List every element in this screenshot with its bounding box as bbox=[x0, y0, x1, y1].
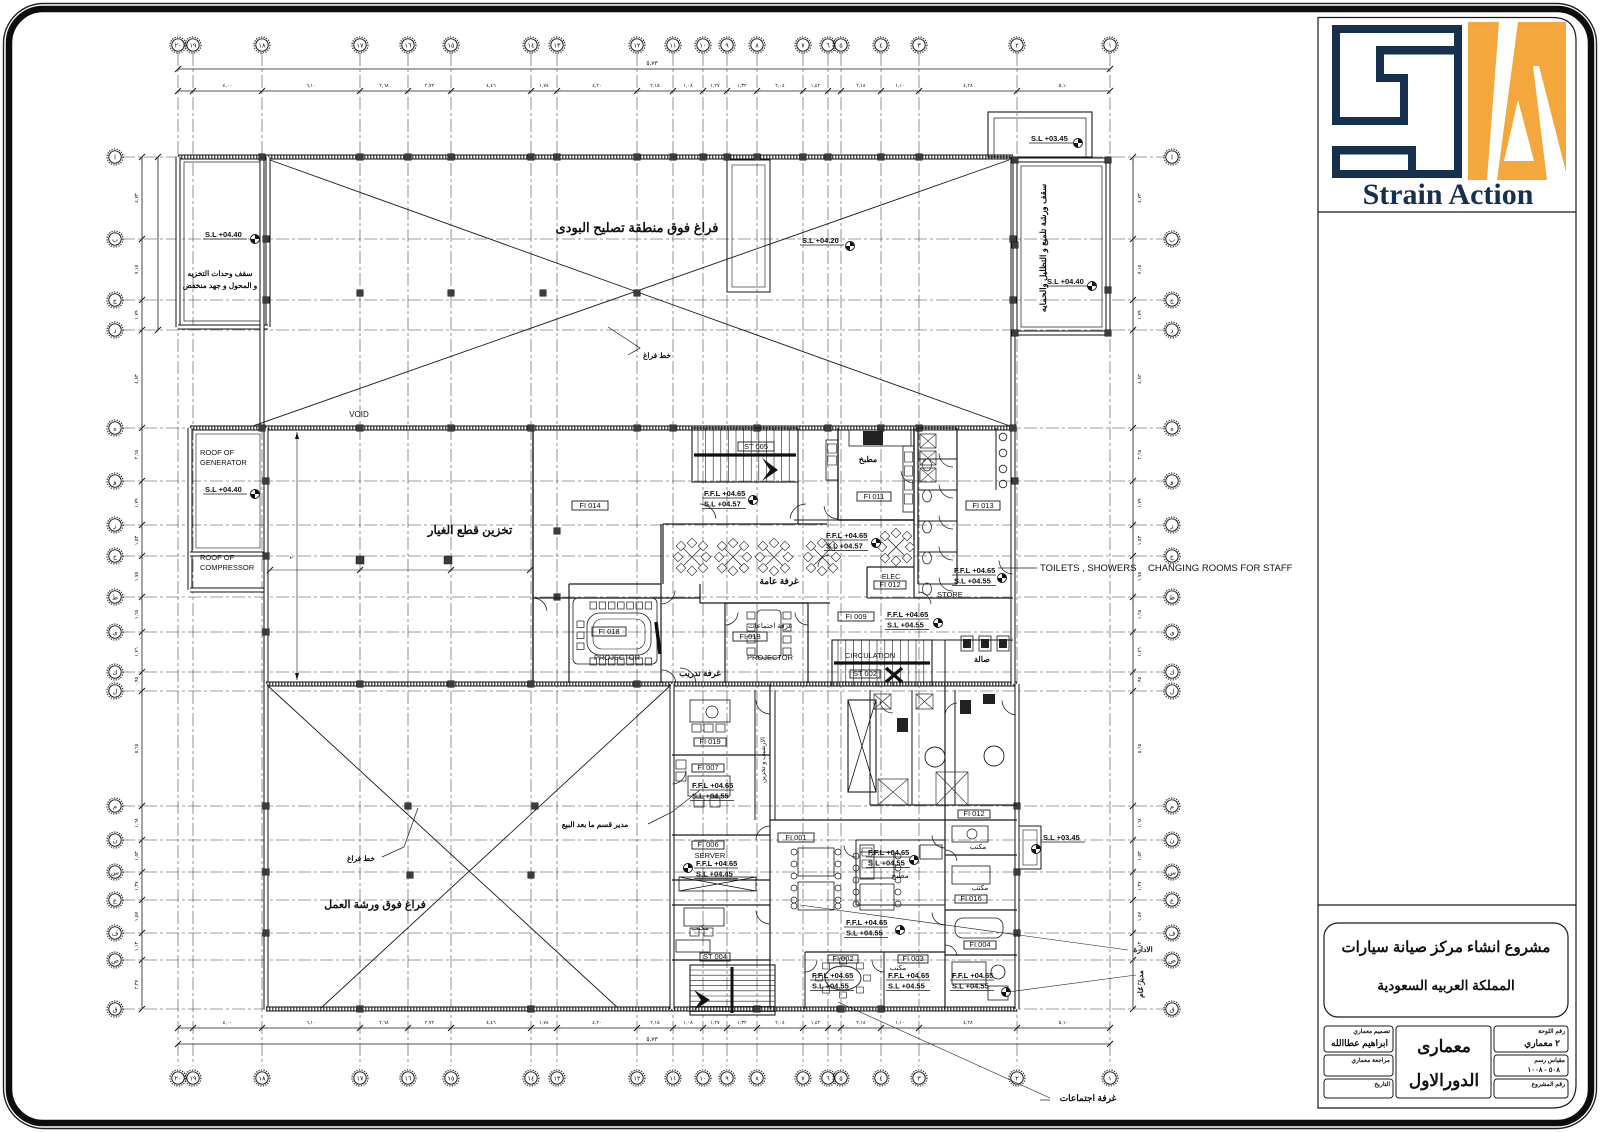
storage room top-left bbox=[176, 157, 181, 327]
svg-text:مكتب: مكتب bbox=[970, 843, 987, 851]
svg-text:٢,٠٤: ٢,٠٤ bbox=[775, 83, 785, 89]
svg-text:FI 006: FI 006 bbox=[697, 840, 718, 849]
left dimension line bbox=[141, 157, 143, 1009]
svg-text:٢٠: ٢٠ bbox=[175, 42, 182, 49]
svg-text:ST 002: ST 002 bbox=[853, 669, 877, 678]
svg-text:٩: ٩ bbox=[725, 1075, 729, 1082]
svg-text:S.L +04.55: S.L +04.55 bbox=[868, 859, 905, 868]
svg-text:١,٧٤: ١,٧٤ bbox=[539, 83, 549, 89]
svg-text:S.L +03.45: S.L +03.45 bbox=[1031, 134, 1068, 143]
svg-text:الدورالاول: الدورالاول bbox=[1409, 1071, 1479, 1091]
svg-text:٢,٦٥: ٢,٦٥ bbox=[134, 449, 140, 459]
kitchen FI 011 walls bbox=[837, 428, 839, 520]
svg-text:٢: ٢ bbox=[1015, 42, 1019, 49]
svg-text:S.L +04.55: S.L +04.55 bbox=[888, 982, 925, 991]
svg-text:VOID: VOID bbox=[349, 410, 369, 419]
svg-text:FI 014: FI 014 bbox=[579, 501, 600, 510]
svg-text:الارشيف و تخزين: الارشيف و تخزين bbox=[759, 737, 767, 783]
svg-text:د: د bbox=[114, 327, 117, 334]
svg-text:٤,٧٣: ٤,٧٣ bbox=[1137, 193, 1143, 203]
svg-text:١٩: ١٩ bbox=[190, 1075, 197, 1082]
svg-text:١,٥٧: ١,٥٧ bbox=[1137, 911, 1143, 921]
svg-text:فراغ فوق منطقة تصليح البودى: فراغ فوق منطقة تصليح البودى bbox=[555, 220, 718, 236]
door arcs bbox=[700, 504, 716, 519]
svg-text:١٢: ١٢ bbox=[634, 42, 641, 49]
svg-text:٥,١٠: ٥,١٠ bbox=[1059, 1020, 1068, 1026]
svg-text:٤,٢٠: ٤,٢٠ bbox=[592, 1020, 601, 1026]
svg-text:١,٥٣: ١,٥٣ bbox=[1137, 535, 1143, 545]
svg-text:تصميم معماري: تصميم معماري bbox=[1353, 1028, 1390, 1035]
svg-text:٨: ٨ bbox=[755, 1075, 759, 1082]
svg-text:STORE: STORE bbox=[937, 590, 963, 599]
svg-text:٧,١٥: ٧,١٥ bbox=[134, 264, 140, 274]
svg-text:FI 007: FI 007 bbox=[697, 763, 718, 772]
svg-text:F.F.L +04.65: F.F.L +04.65 bbox=[696, 859, 737, 868]
svg-text:FI 019: FI 019 bbox=[699, 737, 720, 746]
svg-text:١٤: ١٤ bbox=[528, 1075, 535, 1082]
svg-text:F.F.L +04.65: F.F.L +04.65 bbox=[826, 531, 867, 540]
svg-text:ك: ك bbox=[1169, 668, 1175, 676]
svg-text:S.L +04.57: S.L +04.57 bbox=[826, 542, 863, 551]
svg-text:١,٧٥: ١,٧٥ bbox=[1137, 571, 1143, 581]
svg-text:غرفة تدريب: غرفة تدريب bbox=[679, 668, 721, 679]
svg-text:S.L +04.55: S.L +04.55 bbox=[887, 621, 924, 630]
svg-text:١,٦٨: ١,٦٨ bbox=[134, 818, 140, 828]
svg-text:FI 011: FI 011 bbox=[864, 492, 885, 501]
svg-text:رقم المشروع: رقم المشروع bbox=[1531, 1081, 1565, 1088]
svg-text:١,٥٧: ١,٥٧ bbox=[134, 911, 140, 921]
svg-text:٨: ٨ bbox=[755, 42, 759, 49]
svg-text:FI 012: FI 012 bbox=[963, 809, 984, 818]
svg-text:١: ١ bbox=[1108, 1075, 1112, 1082]
svg-text:FI 013: FI 013 bbox=[972, 501, 993, 510]
top dimension lines bbox=[178, 68, 1110, 70]
bottom dimension lines bbox=[178, 1027, 1110, 1029]
svg-text:F.F.L +04.65: F.F.L +04.65 bbox=[888, 971, 929, 980]
svg-text:مكتب: مكتب bbox=[972, 884, 989, 892]
svg-text:٥,٦٥: ٥,٦٥ bbox=[134, 743, 140, 753]
svg-text:٢,٦٥: ٢,٦٥ bbox=[1137, 449, 1143, 459]
svg-text:١٥: ١٥ bbox=[448, 42, 455, 49]
svg-text:٤,٨٣: ٤,٨٣ bbox=[1137, 374, 1143, 384]
svg-text:FI 004: FI 004 bbox=[969, 940, 990, 949]
FI 007 office bbox=[692, 764, 724, 772]
open office walls bbox=[663, 523, 827, 525]
generator/compressor rooms bbox=[188, 428, 193, 590]
svg-text:F.F.L +04.65: F.F.L +04.65 bbox=[952, 971, 993, 980]
svg-text:٦: ٦ bbox=[826, 42, 830, 49]
svg-text:١,٧٦: ١,٧٦ bbox=[1137, 647, 1143, 657]
svg-text:ROOF OF: ROOF OF bbox=[200, 553, 235, 562]
svg-text:٦,١٠: ٦,١٠ bbox=[306, 1020, 315, 1026]
svg-text:ق: ق bbox=[1169, 1006, 1174, 1013]
top exterior wall bbox=[178, 155, 1013, 160]
FI 001 open office bbox=[770, 819, 945, 821]
svg-text:CIRCULATION: CIRCULATION bbox=[845, 651, 895, 660]
svg-text:٤,٠٠: ٤,٠٠ bbox=[223, 1020, 232, 1026]
svg-text:١٨: ١٨ bbox=[259, 42, 266, 49]
svg-text:٢,٦٨: ٢,٦٨ bbox=[379, 1020, 389, 1026]
svg-text:S.L +04.55: S.L +04.55 bbox=[812, 982, 849, 991]
parts storage right wall bbox=[532, 428, 534, 684]
stair ST 004 bottom bbox=[690, 965, 775, 1015]
manager suite bbox=[952, 962, 986, 984]
svg-text:غرفة اجتماعات: غرفة اجتماعات bbox=[1060, 1093, 1117, 1104]
svg-text:١,٦٥: ١,٦٥ bbox=[134, 609, 140, 619]
svg-text:١,٣٧: ١,٣٧ bbox=[1137, 881, 1143, 891]
svg-text:١,٢٧: ١,٢٧ bbox=[710, 83, 720, 89]
svg-text:FI 016: FI 016 bbox=[960, 894, 981, 903]
svg-text:١٦: ١٦ bbox=[405, 1075, 412, 1082]
svg-text:١,١٣: ١,١٣ bbox=[134, 941, 140, 951]
svg-text:ز: ز bbox=[1169, 522, 1173, 529]
svg-text:١,٥٣: ١,٥٣ bbox=[134, 851, 140, 861]
svg-text:١٩: ١٩ bbox=[190, 42, 197, 49]
svg-text:٤,٨٣: ٤,٨٣ bbox=[134, 374, 140, 384]
svg-text:مقياس رسم: مقياس رسم bbox=[1534, 1057, 1565, 1064]
svg-text:فراغ فوق ورشة العمل: فراغ فوق ورشة العمل bbox=[324, 899, 426, 911]
svg-text:١,٤٢: ١,٤٢ bbox=[811, 83, 821, 89]
svg-text:الادارة: الادارة bbox=[1133, 945, 1152, 955]
svg-text:١٣: ١٣ bbox=[554, 1075, 561, 1082]
upper hall left wall bbox=[260, 157, 265, 428]
toilets right sinks bbox=[995, 428, 997, 490]
svg-text:١,٢٧: ١,٢٧ bbox=[710, 1020, 720, 1026]
svg-text:ك: ك bbox=[112, 668, 118, 676]
svg-text:S.L +04.55: S.L +04.55 bbox=[952, 982, 989, 991]
svg-text:مدير عام: مدير عام bbox=[1136, 970, 1146, 998]
right dimension line bbox=[1132, 157, 1134, 1009]
svg-text:FI 003: FI 003 bbox=[902, 954, 923, 963]
svg-text:٢,١٥: ٢,١٥ bbox=[650, 83, 660, 89]
svg-text:FI 009: FI 009 bbox=[845, 612, 866, 621]
svg-text:٤,٤٦: ٤,٤٦ bbox=[486, 1020, 496, 1026]
svg-text:١٧: ١٧ bbox=[357, 42, 364, 49]
svg-text:٤,٧٣: ٤,٧٣ bbox=[134, 193, 140, 203]
svg-text:التاريخ: التاريخ bbox=[1374, 1081, 1390, 1088]
svg-text:خط فراغ: خط فراغ bbox=[643, 351, 671, 361]
svg-text:١٢: ١٢ bbox=[634, 1075, 641, 1082]
svg-text:ص: ص bbox=[111, 957, 119, 964]
svg-text:S.L +04.55: S.L +04.55 bbox=[846, 929, 883, 938]
upper hall X brace bbox=[270, 160, 1010, 426]
svg-text:١٠: ١٠ bbox=[700, 1075, 707, 1082]
svg-text:٧: ٧ bbox=[801, 1075, 805, 1082]
svg-text:تخزين قطع الغيار: تخزين قطع الغيار bbox=[427, 523, 513, 538]
svg-text:١,٦٥: ١,٦٥ bbox=[1137, 609, 1143, 619]
conference room 2 bbox=[724, 603, 726, 683]
svg-text:١,٧٩: ١,٧٩ bbox=[134, 310, 140, 320]
misc small dims inside bbox=[296, 432, 298, 680]
svg-text:١,٣٢: ١,٣٢ bbox=[737, 1020, 747, 1026]
svg-text:F.F.L +04.65: F.F.L +04.65 bbox=[954, 566, 995, 575]
kitchen 2 bbox=[855, 840, 857, 905]
svg-text:١,١٠: ١,١٠ bbox=[895, 1020, 904, 1026]
svg-text:F.F.L +04.65: F.F.L +04.65 bbox=[846, 918, 887, 927]
svg-text:F.F.L +04.65: F.F.L +04.65 bbox=[812, 971, 853, 980]
lower major wall bbox=[266, 682, 1017, 687]
svg-text:١٦: ١٦ bbox=[405, 42, 412, 49]
svg-text:١١: ١١ bbox=[670, 1075, 677, 1082]
svg-text:ف: ف bbox=[112, 930, 119, 937]
grid bubbles top bbox=[170, 37, 186, 53]
svg-text:ب: ب bbox=[1169, 236, 1176, 243]
svg-text:١٧: ١٧ bbox=[357, 1075, 364, 1082]
svg-text:١,٧٤: ١,٧٤ bbox=[539, 1020, 549, 1026]
grid lines bbox=[177, 53, 179, 1066]
FI 019 office bbox=[694, 738, 726, 746]
svg-text:ه: ه bbox=[1170, 425, 1174, 432]
svg-text:مراجعة معماري: مراجعة معماري bbox=[1351, 1057, 1390, 1064]
svg-text:S.L +04.40: S.L +04.40 bbox=[205, 230, 242, 239]
stair ST 005 bbox=[692, 428, 798, 482]
lounge + wc right of circulation bbox=[944, 640, 946, 684]
svg-text:٢٠: ٢٠ bbox=[175, 1075, 182, 1082]
FI 012 office right bbox=[945, 819, 1017, 821]
svg-text:٢,٧٢: ٢,٧٢ bbox=[425, 1020, 435, 1026]
middle band left spine wall bbox=[264, 428, 269, 684]
svg-text:٤,٢٨: ٤,٢٨ bbox=[963, 1020, 973, 1026]
svg-text:١٤: ١٤ bbox=[528, 42, 535, 49]
title table middle bbox=[1396, 1026, 1491, 1098]
void middle wall bbox=[190, 426, 1013, 431]
svg-text:ط: ط bbox=[112, 593, 118, 601]
svg-text:٢,٦٨: ٢,٦٨ bbox=[379, 83, 389, 89]
svg-text:٧,١٥: ٧,١٥ bbox=[1137, 264, 1143, 274]
svg-text:ف: ف bbox=[1169, 930, 1176, 937]
title table right column bbox=[1494, 1026, 1568, 1052]
svg-text:٢: ٢ bbox=[1015, 1075, 1019, 1082]
svg-text:٣: ٣ bbox=[917, 42, 921, 49]
svg-text:١١: ١١ bbox=[670, 42, 677, 49]
lower-left hall walls bbox=[264, 684, 269, 1009]
lower hall X brace bbox=[267, 685, 618, 1008]
svg-text:ط: ط bbox=[1169, 593, 1175, 601]
titleblock divider bbox=[1318, 904, 1576, 906]
svg-text:٤,٢٠: ٤,٢٠ bbox=[592, 83, 601, 89]
archive room bbox=[754, 690, 756, 820]
svg-text:FI 018: FI 018 bbox=[739, 632, 760, 641]
FI 016 office bbox=[945, 909, 1017, 911]
svg-text:م: م bbox=[1170, 803, 1174, 810]
svg-text:ز: ز bbox=[112, 522, 116, 529]
svg-text:المملكة العربيه السعودية: المملكة العربيه السعودية bbox=[1377, 978, 1514, 994]
svg-text:ا: ا bbox=[1171, 153, 1173, 161]
svg-text:٢,١٥: ٢,١٥ bbox=[650, 1020, 660, 1026]
elevator shaft bbox=[848, 700, 876, 792]
svg-text:٠,٩٥: ٠,٩٥ bbox=[1137, 676, 1143, 686]
workstation clusters bbox=[681, 546, 703, 568]
svg-text:١,٠٨: ١,٠٨ bbox=[683, 83, 693, 89]
svg-text:مطبخ: مطبخ bbox=[859, 455, 877, 465]
svg-text:١,٥٣: ١,٥٣ bbox=[1137, 851, 1143, 861]
FI 006 server bbox=[692, 841, 724, 849]
svg-text:ق: ق bbox=[112, 1006, 117, 1013]
svg-text:مدير قسم ما بعد البيع: مدير قسم ما بعد البيع bbox=[562, 820, 629, 830]
svg-text:PROJECTOR: PROJECTOR bbox=[594, 653, 641, 662]
svg-text:١,٧٥: ١,٧٥ bbox=[134, 571, 140, 581]
svg-text:٩: ٩ bbox=[725, 42, 729, 49]
svg-text:٤,٢٨: ٤,٢٨ bbox=[963, 83, 973, 89]
svg-text:ل: ل bbox=[1170, 687, 1175, 695]
svg-text:و المحول و جهد منخفض: و المحول و جهد منخفض bbox=[183, 281, 258, 291]
svg-text:١,٣٢: ١,٣٢ bbox=[737, 83, 747, 89]
svg-text:٦: ٦ bbox=[826, 1075, 830, 1082]
workshop room right bbox=[1015, 158, 1108, 163]
svg-text:صالة: صالة bbox=[974, 655, 990, 664]
svg-text:٥: ٥ bbox=[839, 42, 843, 49]
svg-text:و: و bbox=[112, 478, 116, 485]
svg-text:١,٧٩: ١,٧٩ bbox=[134, 498, 140, 508]
svg-text:٣٠: ٣٠ bbox=[289, 553, 295, 558]
svg-text:سقف ورشة تلميع و التظليل والحم: سقف ورشة تلميع و التظليل والحمايه bbox=[1038, 184, 1049, 312]
parapet bump top-right bbox=[988, 112, 1092, 157]
svg-text:٠,٩٥: ٠,٩٥ bbox=[134, 676, 140, 686]
conference room FI018 training bbox=[569, 583, 661, 585]
dense block right wall bbox=[1011, 428, 1016, 684]
svg-text:٥,٧٣: ٥,٧٣ bbox=[646, 1037, 658, 1043]
svg-text:٤,٠٠: ٤,٠٠ bbox=[223, 83, 232, 89]
svg-text:TOILETS , SHOWERS: TOILETS , SHOWERS bbox=[1040, 563, 1136, 574]
svg-text:س: س bbox=[111, 869, 119, 876]
svg-text:د: د bbox=[1171, 327, 1174, 334]
svg-text:ص: ص bbox=[1168, 957, 1176, 964]
svg-text:٢,٠٤: ٢,٠٤ bbox=[775, 1020, 785, 1026]
svg-text:مكتب: مكتب bbox=[691, 923, 709, 932]
svg-text:غرفة اجتماعات: غرفة اجتماعات bbox=[748, 622, 792, 630]
svg-text:سقف وحدات التخزيه: سقف وحدات التخزيه bbox=[187, 269, 253, 279]
side entry bump SL+03.45 bbox=[1019, 826, 1041, 869]
svg-text:١,٣٧: ١,٣٧ bbox=[134, 881, 140, 891]
svg-text:ST 005: ST 005 bbox=[744, 442, 768, 451]
stair ST 002 circulation bbox=[832, 640, 932, 686]
svg-text:غرفة عامة: غرفة عامة bbox=[759, 576, 798, 587]
svg-text:٢,١٤: ٢,١٤ bbox=[856, 1020, 866, 1026]
svg-text:١,٧٦: ١,٧٦ bbox=[134, 647, 140, 657]
toilets block upper bbox=[917, 428, 919, 584]
elec + store rooms bbox=[867, 566, 914, 568]
svg-text:مطبخ: مطبخ bbox=[891, 871, 908, 880]
bathroom suites upper bbox=[869, 690, 871, 805]
svg-text:٢,٣٧: ٢,٣٧ bbox=[134, 979, 140, 989]
svg-text:مشروع انشاء مركز صيانة سيارات: مشروع انشاء مركز صيانة سيارات bbox=[1342, 939, 1551, 956]
svg-text:ن: ن bbox=[1170, 837, 1175, 844]
svg-text:١٥: ١٥ bbox=[448, 1075, 455, 1082]
svg-text:و: و bbox=[1169, 478, 1173, 485]
FI 004 room bbox=[945, 954, 1017, 956]
svg-text:FI 001: FI 001 bbox=[785, 833, 806, 842]
svg-text:س: س bbox=[1168, 869, 1176, 876]
svg-text:CHANGING ROOMS FOR STAFF: CHANGING ROOMS FOR STAFF bbox=[1148, 563, 1293, 574]
svg-text:ن: ن bbox=[113, 837, 118, 844]
svg-text:S.L +04.55: S.L +04.55 bbox=[692, 792, 729, 801]
svg-text:٤: ٤ bbox=[879, 42, 883, 49]
column markers bbox=[259, 154, 266, 161]
svg-text:FI 002: FI 002 bbox=[832, 954, 853, 963]
svg-text:٤,٤٦: ٤,٤٦ bbox=[486, 83, 496, 89]
right panel box bbox=[1318, 18, 1576, 1109]
svg-text:٥,٦٥: ٥,٦٥ bbox=[1137, 743, 1143, 753]
logo S glyph bbox=[1332, 25, 1462, 178]
title table left column bbox=[1324, 1026, 1393, 1052]
svg-text:COMPRESSOR: COMPRESSOR bbox=[200, 563, 255, 572]
kitchen counters detail bbox=[826, 440, 838, 480]
svg-text:١٨: ١٨ bbox=[259, 1075, 266, 1082]
svg-text:GENERATOR: GENERATOR bbox=[200, 458, 247, 467]
svg-text:ابراهيم عطاالله: ابراهيم عطاالله bbox=[1331, 1038, 1388, 1049]
svg-text:ب: ب bbox=[112, 236, 119, 243]
svg-text:ROOF OF: ROOF OF bbox=[200, 448, 235, 457]
svg-text:٢ معماري: ٢ معماري bbox=[1524, 1038, 1560, 1049]
svg-text:٧: ٧ bbox=[801, 42, 805, 49]
svg-text:PROJECTOR: PROJECTOR bbox=[747, 653, 794, 662]
svg-text:S.L +03.45: S.L +03.45 bbox=[1043, 833, 1080, 842]
svg-text:١,٧٩: ١,٧٩ bbox=[1137, 310, 1143, 320]
svg-text:٤: ٤ bbox=[879, 1075, 883, 1082]
svg-text:م: م bbox=[113, 803, 117, 810]
svg-text:S.L +04.40: S.L +04.40 bbox=[1047, 277, 1084, 286]
skylight rect upper center bbox=[727, 160, 770, 292]
svg-text:S.L +04.40: S.L +04.40 bbox=[205, 485, 242, 494]
toilets note bbox=[998, 567, 1037, 569]
svg-text:٦,١٠: ٦,١٠ bbox=[306, 83, 315, 89]
project title box bbox=[1324, 923, 1568, 1017]
svg-text:٣: ٣ bbox=[917, 1075, 921, 1082]
svg-text:١,٤٢: ١,٤٢ bbox=[811, 1020, 821, 1026]
svg-text:١٠: ١٠ bbox=[700, 42, 707, 49]
svg-text:١,٥٣: ١,٥٣ bbox=[134, 535, 140, 545]
svg-text:١,٠٨: ١,٠٨ bbox=[683, 1020, 693, 1026]
svg-text:٥,١٠: ٥,١٠ bbox=[1059, 83, 1068, 89]
svg-text:١٣: ١٣ bbox=[554, 42, 561, 49]
svg-text:١,٦٨: ١,٦٨ bbox=[1137, 818, 1143, 828]
upper hall right wall bbox=[1011, 157, 1016, 428]
svg-text:FI 018: FI 018 bbox=[598, 627, 619, 636]
svg-text:F.F.L +04.65: F.F.L +04.65 bbox=[704, 489, 745, 498]
svg-text:ل: ل bbox=[113, 687, 118, 695]
meeting rooms bottom bbox=[805, 951, 945, 953]
svg-text:١: ١ bbox=[1108, 42, 1112, 49]
svg-text:١,٧٩: ١,٧٩ bbox=[1137, 498, 1143, 508]
logo A glyph bbox=[1468, 22, 1566, 180]
svg-text:ه: ه bbox=[113, 425, 117, 432]
svg-text:٢,١٤: ٢,١٤ bbox=[856, 83, 866, 89]
svg-text:٢,٧٢: ٢,٧٢ bbox=[425, 83, 435, 89]
svg-text:٥: ٥ bbox=[839, 1075, 843, 1082]
svg-text:FI 012: FI 012 bbox=[879, 580, 900, 589]
svg-text:معمارى: معمارى bbox=[1417, 1037, 1471, 1057]
svg-text:S.L +04.20: S.L +04.20 bbox=[802, 236, 839, 245]
svg-text:S.L +04.55: S.L +04.55 bbox=[954, 577, 991, 586]
svg-text:رقم اللوحة: رقم اللوحة bbox=[1538, 1028, 1565, 1035]
svg-text:S.L +04.57: S.L +04.57 bbox=[704, 500, 741, 509]
svg-text:F.F.L +04.65: F.F.L +04.65 bbox=[692, 781, 733, 790]
svg-text:F.F.L +04.65: F.F.L +04.65 bbox=[887, 610, 928, 619]
logo divider bbox=[1318, 211, 1576, 213]
svg-text:١,١٠: ١,١٠ bbox=[895, 83, 904, 89]
svg-text:٥,٧٣: ٥,٧٣ bbox=[646, 61, 658, 67]
svg-text:Strain Action: Strain Action bbox=[1363, 178, 1534, 211]
svg-text:خط فراغ: خط فراغ bbox=[347, 854, 375, 864]
grid bubbles sides bbox=[107, 149, 123, 165]
left office column walls bbox=[672, 754, 770, 756]
svg-text:ا: ا bbox=[114, 153, 116, 161]
svg-text:٥٠٨ - ١٠٠٨: ٥٠٨ - ١٠٠٨ bbox=[1527, 1067, 1560, 1074]
